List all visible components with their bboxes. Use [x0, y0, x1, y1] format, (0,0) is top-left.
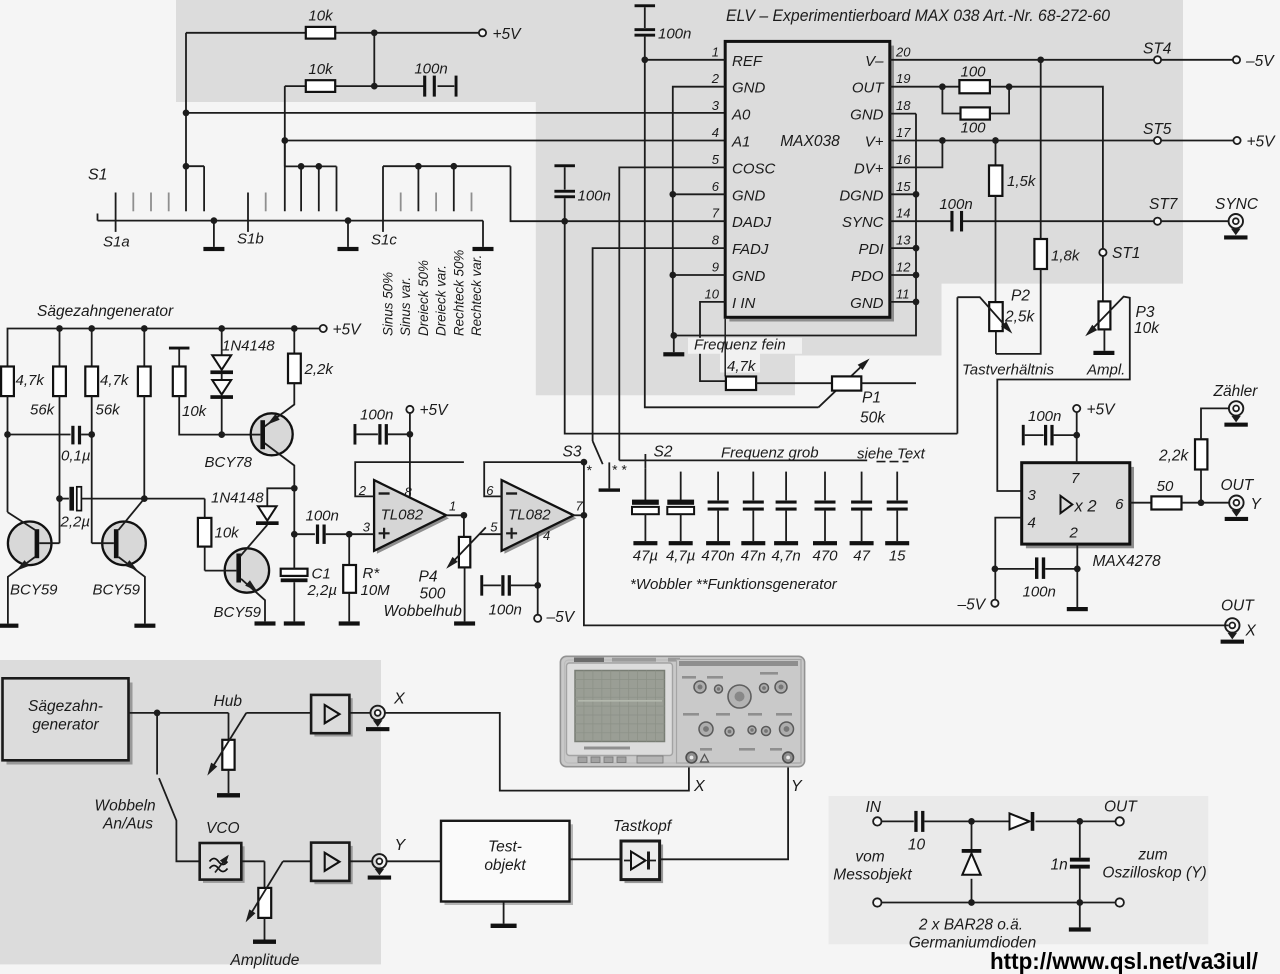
svg-text:S3: S3 [563, 444, 582, 461]
oscilloscope knobs [728, 685, 751, 708]
S1b bridge to A1 net [284, 141, 286, 212]
svg-text:7: 7 [712, 206, 720, 221]
svg-text:S1c: S1c [371, 232, 397, 249]
svg-text:7: 7 [576, 499, 584, 514]
diode BAR28 shunt [971, 821, 973, 849]
terminal +5V MAX4278 [1073, 405, 1080, 412]
svg-text:10M: 10M [361, 582, 391, 599]
svg-text:2,2µ: 2,2µ [60, 514, 91, 531]
terminal ST1 [1099, 249, 1106, 256]
resistor R* 10M [348, 534, 350, 565]
wire COSC pin5 to S2 bus [619, 167, 725, 460]
wire S2 bus dashed [877, 461, 909, 463]
resistor 2,2k (Zaehler) [1200, 470, 1202, 503]
IC U4 MAX4278 body [1022, 463, 1130, 544]
potentiometer Hub [228, 713, 230, 740]
oscilloscope brand label [574, 658, 604, 663]
svg-text:BCY59: BCY59 [10, 582, 58, 599]
wire OUT to ST1 column [990, 87, 1103, 249]
terminal detector bottom left [873, 898, 881, 906]
wire DV+ pin16 [890, 141, 943, 168]
wire V+ pin17 rail [890, 140, 1154, 142]
capacitor 4,7µ (timing bank) [680, 472, 682, 501]
svg-text:15: 15 [896, 179, 911, 194]
svg-text:Rechteck 50%: Rechteck 50% [451, 250, 466, 336]
junction DADJ [561, 218, 568, 225]
svg-text:TL082: TL082 [381, 507, 424, 524]
capacitor 100n SYNC [950, 211, 953, 232]
amplifier block X [311, 695, 349, 733]
oscilloscope X input [686, 752, 697, 763]
svg-text:OUT: OUT [852, 80, 886, 97]
amplifier symbol x2 [1061, 496, 1073, 513]
multivibrator coupling 2,2u [56, 495, 63, 502]
svg-text:*: * [586, 462, 592, 478]
svg-text:100n: 100n [306, 508, 339, 525]
svg-text:X: X [693, 778, 706, 795]
resistor 56k (second) [143, 329, 145, 367]
switch S3 lever [593, 441, 603, 464]
svg-text:OUT: OUT [1221, 477, 1255, 494]
svg-text:10k: 10k [182, 403, 208, 420]
svg-text:MAX038: MAX038 [780, 133, 840, 150]
svg-text:Sinus var.: Sinus var. [398, 277, 413, 336]
svg-text:19: 19 [896, 71, 910, 86]
resistor 56k (first) [59, 329, 61, 367]
svg-text:FADJ: FADJ [732, 241, 769, 258]
resistor 100 (upper) [959, 80, 990, 93]
svg-text:DADJ: DADJ [732, 214, 772, 231]
svg-text:6: 6 [712, 179, 720, 194]
capacitor 100n at REF [635, 4, 656, 7]
multivibrator coupling 0,1u [4, 431, 11, 438]
svg-text:*Wobbler **Funktionsgenerator: *Wobbler **Funktionsgenerator [630, 576, 838, 593]
block VCO shadow [203, 846, 245, 883]
svg-text:SYNC: SYNC [1215, 196, 1259, 213]
terminal ST7 [1154, 218, 1161, 225]
svg-text:100n: 100n [1028, 408, 1061, 425]
svg-text:1,5k: 1,5k [1007, 173, 1037, 190]
wire A1 bus [285, 140, 725, 142]
wire MAX4278 pin2 [1076, 544, 1078, 569]
wire PDI pin13 [890, 247, 916, 249]
svg-text:7: 7 [1071, 470, 1080, 487]
svg-text:+5V: +5V [1087, 402, 1117, 419]
svg-text:100n: 100n [578, 188, 611, 205]
terminal OUT detector [1116, 817, 1124, 825]
svg-text:10: 10 [705, 286, 720, 301]
junction shunt diode [968, 818, 975, 825]
svg-text:OUT: OUT [1221, 598, 1255, 615]
wire 10k to BCY78 base [179, 396, 251, 435]
ground net line GND [674, 114, 916, 336]
block Tastkopf shadow [625, 845, 664, 884]
wire 1,8k to P2 bottom [996, 269, 1041, 354]
svg-text:PDO: PDO [851, 268, 884, 285]
svg-text:x 2: x 2 [1074, 498, 1097, 516]
svg-text:Test-: Test- [488, 839, 522, 856]
svg-text:DV+: DV+ [854, 160, 884, 177]
svg-text:BCY59: BCY59 [214, 604, 262, 621]
wire U2 output [446, 514, 464, 516]
oscilloscope small labels [682, 676, 696, 679]
svg-text:zum: zum [1137, 847, 1167, 864]
terminal detector bottom right [1116, 898, 1124, 906]
svg-text:OUT: OUT [1104, 799, 1138, 816]
capacitor 15 (timing bank) [896, 472, 898, 501]
svg-text:Rechteck var.: Rechteck var. [469, 255, 484, 336]
capacitor 100n at DADJ [554, 164, 575, 167]
svg-text:2: 2 [711, 71, 720, 86]
svg-text:1N4148: 1N4148 [211, 490, 264, 507]
wire REF vertical to P1 wiper [645, 60, 819, 408]
capacitor 100n (U2 supply) [409, 413, 411, 434]
wire P4 wiper to U3 pin5 [480, 533, 502, 535]
wire A0 bus [186, 112, 725, 114]
svg-text:Tastverhältnis: Tastverhältnis [962, 362, 1054, 379]
svg-text:+5V: +5V [333, 322, 363, 339]
wire 100s parallel link [942, 87, 960, 114]
svg-text:I IN: I IN [732, 295, 756, 312]
wire PDO pin12 [890, 274, 916, 276]
svg-text:4,7n: 4,7n [771, 548, 800, 565]
capacitor 47µ (timing bank) [644, 468, 646, 500]
svg-text:100n: 100n [360, 407, 393, 424]
capacitor 100n (MAX4278 supply) [1076, 412, 1078, 435]
wire row1 to row2 [373, 33, 375, 86]
svg-text:ST5: ST5 [1143, 121, 1172, 138]
wire DADJ vertical to P2 wiper [565, 221, 958, 433]
potentiometer Amplitude [264, 861, 266, 888]
wire S3 common vertical [583, 462, 585, 515]
capacitor C1 2,2u [281, 569, 308, 576]
terminal IN [873, 817, 881, 825]
junction GND ground symbol [670, 332, 677, 339]
svg-text:8: 8 [712, 233, 720, 248]
wire DADJ pin7 [511, 166, 726, 221]
svg-text:15: 15 [889, 548, 906, 565]
wire P2 wiper [957, 297, 1008, 329]
potentiometer P4 500 Wobbelhub [463, 515, 465, 537]
svg-text:DGND: DGND [839, 187, 883, 204]
S1c position ticks gray [400, 193, 402, 212]
wire SYNC pin14 [890, 220, 951, 222]
junction row2 [371, 83, 378, 90]
connector SYNC [1229, 214, 1243, 228]
svg-text:5: 5 [490, 520, 498, 535]
svg-text:56k: 56k [30, 402, 56, 419]
svg-text:siehe Text: siehe Text [857, 446, 926, 463]
svg-text:1,8k: 1,8k [1051, 248, 1081, 265]
amplifier block Y [311, 843, 349, 881]
svg-text:3: 3 [363, 520, 371, 535]
svg-text:4: 4 [1028, 515, 1036, 532]
wire Hub to amp X [246, 712, 311, 714]
wire Tastkopf to oscilloscope Y [660, 762, 789, 859]
svg-text:http://www.qsl.net/va3iul/: http://www.qsl.net/va3iul/ [990, 948, 1259, 974]
wire U3 output node [572, 514, 584, 516]
svg-text:2,2k: 2,2k [304, 361, 335, 378]
resistor 1,5k [995, 141, 997, 166]
svg-text:S1b: S1b [237, 231, 264, 248]
svg-text:17: 17 [896, 125, 911, 140]
terminal +5V right [1233, 137, 1240, 144]
svg-text:Frequenz grob: Frequenz grob [721, 445, 819, 462]
svg-text:Sägezahn-: Sägezahn- [28, 698, 103, 715]
svg-text:GND: GND [732, 187, 766, 204]
wire P1 wiper diagonal [819, 362, 867, 408]
connector OUT Y [1229, 496, 1243, 510]
wire OUT X long line [584, 515, 1229, 625]
terminal -5V opamp [534, 615, 541, 622]
wire I IN pin10 to 4.7k [700, 302, 726, 381]
wire Amplitude to amp Y [283, 860, 311, 862]
svg-text:56k: 56k [96, 402, 122, 419]
svg-text:ST1: ST1 [1112, 245, 1140, 262]
svg-text:1: 1 [712, 44, 719, 59]
switch S3 contact ** [608, 462, 610, 488]
wire IC corner to 4.7k [724, 319, 726, 377]
wire Y to Testobjekt [387, 860, 441, 862]
wire 50 to OUT Y [1182, 502, 1230, 504]
wire second vertical to S1b [284, 86, 286, 166]
svg-text:11: 11 [896, 286, 910, 301]
connector X [371, 706, 385, 720]
svg-text:S1: S1 [88, 167, 108, 184]
svg-text:100n: 100n [414, 61, 447, 78]
svg-text:Dreieck 50%: Dreieck 50% [416, 260, 431, 336]
svg-text:50k: 50k [860, 410, 886, 427]
resistor 4,7k (first) [1, 367, 14, 397]
wire U3 pin4 supply [537, 534, 539, 615]
svg-text:100n: 100n [658, 26, 691, 43]
svg-text:Dreieck var.: Dreieck var. [434, 265, 449, 336]
resistor 2,2k [293, 329, 295, 354]
svg-text:Hub: Hub [214, 693, 243, 710]
terminal +5V top [479, 29, 486, 36]
svg-text:PDI: PDI [858, 241, 883, 258]
svg-text:Sägezahngenerator: Sägezahngenerator [37, 303, 174, 320]
svg-text:S2: S2 [654, 444, 673, 461]
svg-text:Ampl.: Ampl. [1086, 362, 1125, 379]
svg-text:C1: C1 [312, 566, 331, 583]
wire GND pin6 stub [673, 193, 725, 195]
svg-text:Frequenz fein: Frequenz fein [694, 337, 786, 354]
svg-text:4: 4 [543, 528, 550, 543]
svg-text:A0: A0 [731, 107, 751, 124]
wire generator output [129, 712, 229, 714]
transistor Q5 BCY59 (middle) [102, 522, 146, 566]
wire GND pin9 stub [673, 274, 725, 276]
S1c bridge to DADJ net [383, 165, 511, 167]
svg-text:vom: vom [855, 849, 884, 866]
svg-text:GND: GND [850, 107, 884, 124]
terminal ST4 [1154, 56, 1161, 63]
svg-text:47µ: 47µ [633, 548, 658, 565]
svg-text:4,7k: 4,7k [727, 358, 757, 375]
wire S2 bus Frequenz grob [619, 459, 867, 461]
block Saegezahngenerator [3, 678, 129, 760]
wire U2 pin3 input [349, 533, 374, 535]
gray panel detector circuit [829, 796, 1209, 944]
svg-text:Y: Y [395, 837, 407, 854]
svg-text:V+: V+ [865, 134, 884, 151]
VCO symbol [210, 859, 228, 872]
S1c wiper tick [382, 166, 384, 232]
svg-text:1N4148: 1N4148 [222, 338, 275, 355]
terminal -5V MAX4278 [991, 600, 998, 607]
junction V- to 1,8k [1037, 56, 1044, 63]
resistor 1,8k [1040, 60, 1042, 239]
resistor R 10k (upper) [306, 27, 335, 39]
svg-text:2,2µ: 2,2µ [307, 582, 338, 599]
svg-text:REF: REF [732, 53, 763, 70]
svg-text:X: X [1245, 623, 1257, 640]
capacitor 100n (U3 supply) [480, 575, 483, 596]
wire 56k second to Q5 collector lead [143, 396, 145, 499]
amplifier block X shadow [314, 698, 352, 736]
svg-text:Zähler: Zähler [1213, 383, 1259, 400]
svg-text:1n: 1n [1051, 857, 1068, 874]
capacitor 100n (MAX4278 bottom) [995, 568, 1035, 570]
op-amp U2 TL082 (left) [377, 483, 449, 554]
wire ST7 to SYNC connector [1161, 220, 1229, 222]
svg-text:P3: P3 [1136, 304, 1155, 321]
svg-text:9: 9 [712, 260, 719, 275]
svg-text:A1: A1 [731, 134, 750, 151]
diode BAR28 series [1010, 813, 1030, 829]
wire 2,2k to Zaehler [1201, 408, 1229, 439]
block Saegezahngenerator shadow [7, 683, 133, 765]
capacitor 100n (top-left) [374, 85, 424, 87]
svg-text:100n: 100n [939, 196, 972, 213]
wire 56k first to Q4 base lead [59, 396, 61, 543]
wire FADJ pin8 to S3 [593, 248, 726, 441]
wire REF pin1 [645, 59, 725, 61]
label Frequenz fein box [688, 338, 802, 354]
svg-text:100n: 100n [489, 602, 522, 619]
svg-text:TL082: TL082 [508, 507, 551, 524]
svg-text:BCY78: BCY78 [205, 454, 253, 471]
wire DGND pin15 [890, 193, 916, 195]
svg-text:BCY59: BCY59 [93, 582, 141, 599]
svg-text:5: 5 [712, 152, 720, 167]
oscilloscope body [560, 656, 804, 766]
svg-text:ELV – Experimentierboard MAX 0: ELV – Experimentierboard MAX 038 Art.-Nr… [726, 7, 1111, 25]
resistor 4,7k (Frequenz fein) [726, 377, 756, 391]
gray panel bottom-left block diagram [0, 660, 381, 964]
svg-text:0,1µ: 0,1µ [61, 448, 91, 465]
wire VCO to Amplitude pot [241, 860, 264, 862]
ground S1-3 [482, 221, 484, 247]
wire Testobjekt to Tastkopf [570, 858, 621, 860]
resistor 4,7k (second) [91, 329, 93, 367]
svg-text:–5V: –5V [546, 609, 576, 626]
svg-text:12: 12 [896, 260, 911, 275]
svg-text:R*: R* [363, 565, 381, 582]
svg-text:18: 18 [896, 98, 911, 113]
junction S1 ground 1 [211, 217, 218, 224]
switch S2 wiper tick [644, 454, 646, 468]
gray panel top (stepped outline) [176, 0, 1183, 395]
ground S1-2 [347, 221, 349, 247]
capacitor 470 (timing bank) [824, 472, 826, 501]
S1a bridge to A0 net [183, 163, 190, 170]
wire X to oscilloscope [385, 713, 689, 791]
svg-text:14: 14 [896, 206, 910, 221]
block Tastkopf [621, 841, 660, 880]
svg-text:4: 4 [712, 125, 719, 140]
label 4,7k box [720, 354, 760, 373]
svg-text:–5V: –5V [1245, 53, 1275, 70]
svg-text:4,7µ: 4,7µ [666, 548, 696, 565]
ground detector [1079, 903, 1081, 928]
svg-text:8: 8 [405, 485, 413, 500]
svg-text:470n: 470n [701, 548, 734, 565]
wire MAX4278 pin6 output [1130, 502, 1152, 504]
svg-text:Messobjekt: Messobjekt [833, 867, 912, 884]
svg-text:Y: Y [1251, 496, 1263, 513]
junction 1n cap [1076, 818, 1083, 825]
terminal +5V opamp [406, 406, 413, 413]
svg-text:16: 16 [896, 152, 911, 167]
ground Testobjekt [503, 902, 505, 924]
svg-text:IN: IN [866, 799, 882, 816]
svg-text:An/Aus: An/Aus [102, 816, 153, 833]
IC U1 MAX038 shadow [729, 46, 894, 322]
wire Hub wiper [209, 713, 246, 772]
oscilloscope control panel [677, 660, 802, 764]
block VCO [200, 843, 242, 880]
wire series diode to OUT [1036, 820, 1117, 822]
svg-text:13: 13 [896, 233, 911, 248]
svg-text:Wobbelhub: Wobbelhub [384, 603, 463, 620]
svg-text:500: 500 [420, 586, 446, 603]
terminal ST5 [1154, 137, 1161, 144]
capacitor 47n (timing bank) [752, 472, 754, 501]
transistor Q4 BCY59 (left) [8, 522, 52, 566]
svg-text:COSC: COSC [732, 160, 776, 177]
svg-text:2 x BAR28 o.ä.: 2 x BAR28 o.ä. [918, 917, 1023, 934]
svg-text:Y: Y [791, 778, 803, 795]
capacitor 1n [1079, 821, 1081, 857]
amplifier block Y shadow [314, 846, 352, 884]
resistor 50 [1151, 496, 1181, 509]
switch S1 baseline [98, 220, 484, 222]
ground MAX4278 [1076, 569, 1078, 607]
block Testobjekt [441, 821, 570, 902]
svg-text:47: 47 [853, 548, 870, 565]
svg-text:P2: P2 [1011, 288, 1030, 305]
oscilloscope screen [575, 671, 665, 742]
resistor 10k (base) [204, 499, 206, 518]
S1b wiper tick [247, 193, 249, 232]
svg-text:GND: GND [732, 268, 766, 285]
wire +5V rail sawtooth [8, 329, 320, 367]
wire P2 wiper vertical [956, 297, 958, 433]
wire MAX4278 pin4 to -5V [995, 518, 1021, 600]
svg-text:10k: 10k [308, 8, 334, 25]
svg-text:+5V: +5V [420, 402, 450, 419]
junction row1 [371, 29, 378, 36]
svg-text:3: 3 [712, 98, 720, 113]
svg-text:MAX4278: MAX4278 [1093, 553, 1161, 570]
resistor 10k (bias) [169, 347, 190, 350]
wire detector bottom [881, 902, 1116, 904]
wire amp X to connector [349, 712, 370, 714]
capacitor 470n (timing bank) [717, 472, 719, 501]
svg-text:10k: 10k [215, 525, 241, 542]
